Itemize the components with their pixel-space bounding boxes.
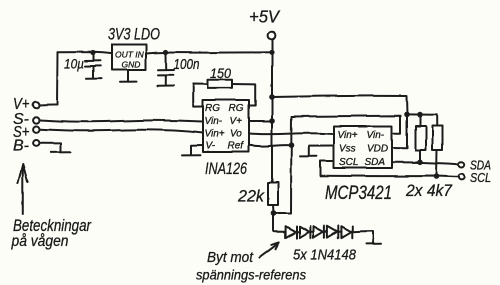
svg-text:10µ: 10µ	[64, 56, 84, 72]
svg-text:2x 4k7: 2x 4k7	[405, 181, 452, 200]
svg-text:Vo: Vo	[230, 129, 242, 140]
svg-text:Ref: Ref	[228, 141, 245, 152]
svg-text:Vin+: Vin+	[338, 130, 358, 141]
svg-text:spännings-referens: spännings-referens	[196, 268, 306, 283]
svg-text:på vågen: på vågen	[11, 232, 69, 250]
svg-text:SDA: SDA	[365, 157, 386, 168]
svg-text:SCL: SCL	[339, 157, 358, 168]
svg-text:Vin-: Vin-	[367, 130, 385, 141]
svg-text:OUT IN: OUT IN	[115, 50, 145, 60]
svg-text:V-: V-	[206, 141, 216, 152]
svg-text:VDD: VDD	[367, 144, 388, 155]
svg-text:Vin-: Vin-	[205, 116, 223, 127]
svg-text:Vss: Vss	[339, 144, 356, 155]
svg-text:150: 150	[210, 65, 231, 81]
svg-text:B-: B-	[13, 138, 29, 155]
svg-text:5x 1N4148: 5x 1N4148	[293, 247, 357, 264]
svg-text:+5V: +5V	[249, 7, 281, 27]
svg-text:Byt mot: Byt mot	[207, 249, 254, 266]
svg-text:GND: GND	[122, 60, 141, 70]
svg-text:3V3 LDO: 3V3 LDO	[108, 25, 160, 44]
svg-text:RG: RG	[229, 103, 244, 114]
svg-text:SCL: SCL	[470, 170, 491, 185]
svg-text:MCP3421: MCP3421	[325, 183, 392, 204]
svg-text:RG: RG	[205, 103, 220, 114]
svg-text:INA126: INA126	[205, 159, 247, 178]
svg-text:22k: 22k	[237, 187, 265, 206]
svg-text:Vin+: Vin+	[205, 129, 225, 140]
svg-text:100n: 100n	[174, 56, 200, 73]
svg-text:V+: V+	[230, 116, 243, 127]
